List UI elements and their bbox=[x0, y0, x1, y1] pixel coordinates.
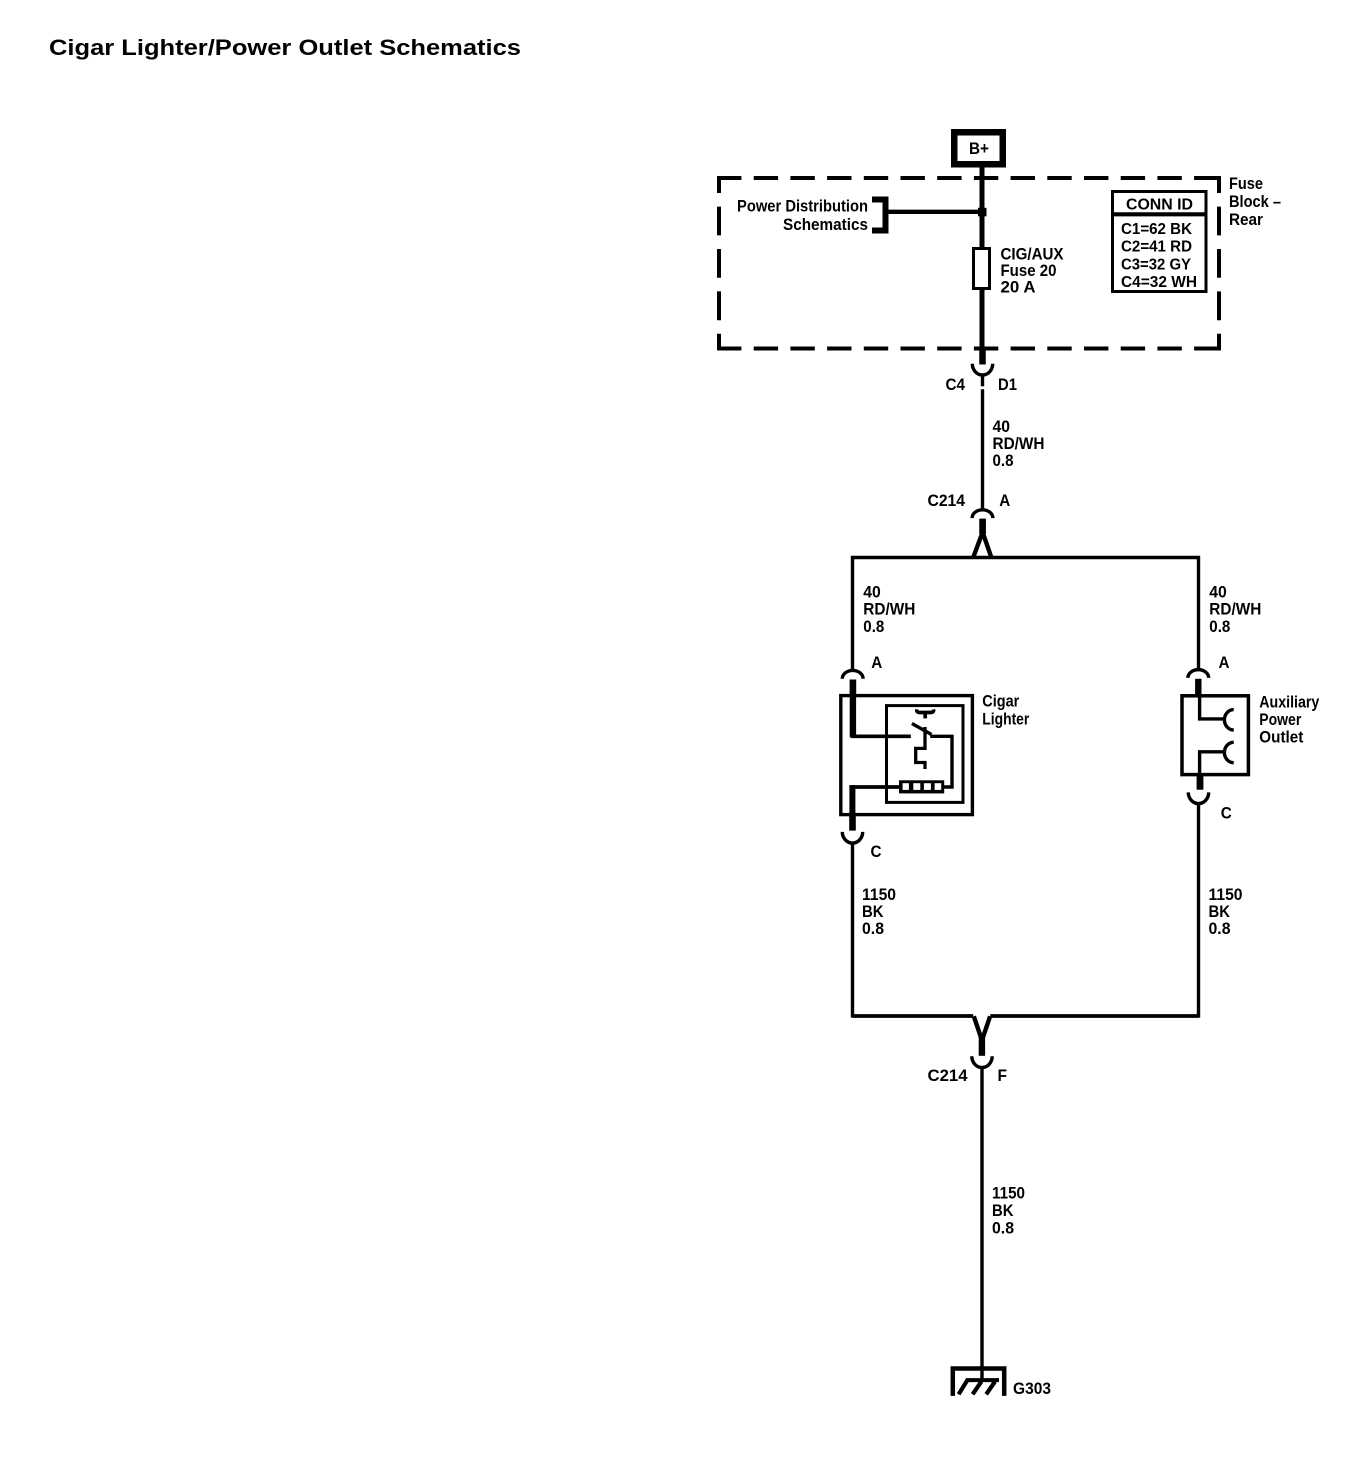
ground G303 bbox=[953, 1369, 1004, 1396]
svg-text:0.8: 0.8 bbox=[1209, 919, 1231, 938]
fuse CIG/AUX Fuse 20 20A bbox=[974, 249, 990, 289]
svg-text:A: A bbox=[999, 491, 1010, 510]
svg-text:C214: C214 bbox=[928, 491, 966, 510]
bracket for power distribution reference bbox=[872, 200, 886, 231]
svg-text:F: F bbox=[998, 1066, 1008, 1085]
svg-text:D1: D1 bbox=[998, 375, 1017, 394]
wire B+ to fuse bbox=[980, 165, 985, 250]
svg-text:C3=32 GY: C3=32 GY bbox=[1121, 256, 1192, 273]
label wire 40 RD/WH 0.8 right bbox=[1209, 582, 1261, 636]
cigar lighter component box bbox=[841, 696, 973, 815]
svg-text:Cigar: Cigar bbox=[982, 691, 1019, 710]
aux power outlet component box bbox=[1182, 696, 1248, 775]
fuse block dashed boundary bbox=[717, 176, 1221, 351]
knob stem bbox=[923, 713, 927, 719]
svg-text:A: A bbox=[871, 653, 882, 672]
wire switch to heating element bbox=[930, 736, 952, 787]
connector C214 pin A top bbox=[972, 510, 993, 557]
svg-text:C1=62 BK: C1=62 BK bbox=[1121, 221, 1192, 238]
wire C4 to C214, circuit 40 RD/WH bbox=[981, 389, 984, 509]
svg-text:Block –: Block – bbox=[1229, 192, 1281, 211]
svg-text:1150: 1150 bbox=[992, 1183, 1025, 1202]
svg-text:B+: B+ bbox=[969, 139, 989, 158]
wire top rail splitting to both outlets bbox=[853, 558, 1199, 670]
label fuse value bbox=[1001, 245, 1065, 297]
svg-text:0.8: 0.8 bbox=[1209, 617, 1230, 636]
svg-text:C: C bbox=[1221, 804, 1232, 823]
svg-text:Power Distribution: Power Distribution bbox=[737, 197, 868, 216]
battery feed B+ bbox=[954, 132, 1003, 164]
svg-text:Lighter: Lighter bbox=[982, 709, 1029, 728]
svg-text:0.8: 0.8 bbox=[863, 617, 884, 636]
outlet return wire bbox=[1200, 752, 1225, 775]
wire fuse to connector C4 bbox=[980, 288, 985, 347]
svg-text:RD/WH: RD/WH bbox=[863, 600, 915, 619]
heating element bar bbox=[899, 780, 944, 793]
svg-text:0.8: 0.8 bbox=[862, 919, 884, 938]
svg-text:RD/WH: RD/WH bbox=[1209, 600, 1261, 619]
svg-text:0.8: 0.8 bbox=[992, 1218, 1014, 1237]
svg-text:G303: G303 bbox=[1013, 1379, 1051, 1398]
switch contact diagonal bbox=[912, 724, 932, 735]
svg-text:40: 40 bbox=[1209, 582, 1227, 601]
connector pin A aux outlet bbox=[1188, 670, 1209, 696]
label Fuse Block - Rear bbox=[1229, 174, 1281, 229]
wire bracket to main feed bbox=[889, 210, 983, 214]
svg-text:CONN ID: CONN ID bbox=[1126, 196, 1193, 213]
svg-text:Auxiliary: Auxiliary bbox=[1259, 692, 1319, 711]
label 1150 BK 0.8 right bbox=[1209, 885, 1243, 938]
connector pin C aux outlet bbox=[1188, 775, 1208, 804]
junction V into C214 F bbox=[972, 1016, 992, 1067]
wire to ground 1150 BK bbox=[980, 1067, 983, 1381]
label Power Distribution Schematics bbox=[737, 197, 868, 234]
svg-text:Fuse: Fuse bbox=[1229, 174, 1263, 193]
svg-text:Outlet: Outlet bbox=[1259, 727, 1303, 746]
lighter knob T element bbox=[917, 709, 934, 712]
connector C4 pin D1 bbox=[972, 347, 992, 386]
svg-text:40: 40 bbox=[863, 582, 881, 601]
node junction at feed bbox=[978, 208, 987, 217]
label wire 40 RD/WH 0.8 bbox=[993, 417, 1045, 470]
outlet feed contact bbox=[1224, 710, 1233, 730]
thermal element zigzag bbox=[916, 727, 925, 769]
label 1150 BK 0.8 left bbox=[862, 885, 896, 938]
wire feed into lighter bbox=[850, 694, 856, 737]
svg-text:C2=41 RD: C2=41 RD bbox=[1121, 239, 1192, 256]
svg-text:20 A: 20 A bbox=[1001, 278, 1036, 297]
wire feed horizontal to switch bbox=[851, 734, 911, 738]
svg-text:C4=32 WH: C4=32 WH bbox=[1121, 274, 1197, 291]
svg-text:Cigar Lighter/Power Outlet Sch: Cigar Lighter/Power Outlet Schematics bbox=[49, 35, 521, 60]
svg-text:C4: C4 bbox=[946, 375, 966, 394]
label Cigar Lighter bbox=[982, 691, 1029, 728]
svg-text:Power: Power bbox=[1259, 710, 1301, 729]
svg-text:Rear: Rear bbox=[1229, 210, 1263, 229]
label wire 40 RD/WH 0.8 left bbox=[863, 582, 915, 636]
outlet feed wire bbox=[1200, 696, 1225, 719]
wire heating element return bbox=[849, 785, 899, 789]
outlet return contact bbox=[1224, 742, 1233, 762]
label Auxiliary Power Outlet bbox=[1259, 692, 1319, 746]
wire cigar lighter return 1150 BK bbox=[851, 843, 854, 1018]
connector pin A cigar lighter bbox=[842, 670, 863, 696]
svg-text:C214: C214 bbox=[928, 1066, 969, 1085]
svg-text:Schematics: Schematics bbox=[783, 215, 868, 234]
svg-text:C: C bbox=[871, 842, 882, 861]
wire aux outlet return 1150 BK bbox=[1197, 803, 1200, 1017]
wire bottom rail joining returns bbox=[853, 1014, 1199, 1018]
connector pin C cigar lighter bbox=[842, 814, 862, 843]
cigar lighter element inner box bbox=[887, 706, 964, 803]
svg-text:BK: BK bbox=[992, 1201, 1014, 1220]
CONN ID table bbox=[1111, 192, 1208, 292]
svg-text:A: A bbox=[1219, 653, 1230, 672]
label 1150 BK 0.8 bottom bbox=[992, 1183, 1025, 1237]
svg-text:0.8: 0.8 bbox=[993, 451, 1014, 470]
